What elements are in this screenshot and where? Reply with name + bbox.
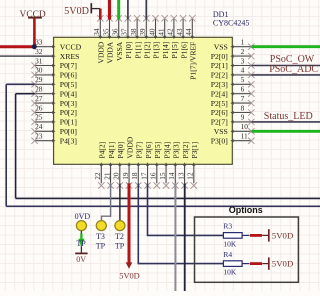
svg-text:14: 14 (167, 172, 176, 180)
svg-text:43: 43 (175, 28, 184, 36)
pin 3 P2[1] (right) (211, 56, 255, 70)
svg-text:9: 9 (241, 113, 245, 122)
svg-text:18: 18 (130, 172, 139, 180)
pin 21 P4[1] (bottom) (102, 142, 115, 189)
svg-text:VDDD: VDDD (125, 136, 134, 158)
svg-text:P0[0]: P0[0] (60, 127, 77, 136)
svg-text:VDDA: VDDA (106, 41, 115, 63)
pin 5 P2[3] (right) (211, 75, 255, 89)
wire VSS pin 10 (green to right edge) (251, 130, 320, 133)
svg-text:R4: R4 (223, 250, 232, 259)
resistor R3 body (223, 233, 242, 239)
wire net H2 horizontal to right edge (6, 205, 320, 207)
wire P0[5] vertical (5, 84, 7, 206)
svg-text:12: 12 (186, 172, 195, 180)
wire P1[2] pin 39 (from top edge) (145, 0, 147, 20)
test point T2 pad (115, 221, 125, 231)
svg-text:1: 1 (241, 38, 245, 47)
svg-text:VSS: VSS (214, 42, 228, 51)
svg-text:XRES: XRES (60, 52, 80, 61)
wire Status_LED pin 9 (251, 121, 320, 123)
svg-text:13: 13 (176, 172, 185, 180)
wire XRES (gray, to left edge) (0, 55, 54, 57)
IC DD1 CY8C4245 body (54, 37, 233, 164)
TP1 green marker arrow (80, 233, 82, 239)
svg-text:36: 36 (111, 28, 120, 36)
svg-text:P1[3]: P1[3] (152, 42, 161, 59)
pin 15 P3[4] (bottom) (158, 142, 171, 189)
pin 14 P3[3] (bottom) (167, 142, 180, 189)
svg-text:34: 34 (92, 28, 101, 36)
svg-text:P0[4]: P0[4] (60, 89, 77, 98)
power port 5V0D (R4) stub (262, 263, 269, 265)
pin 10 VSS (right) (214, 122, 255, 136)
test point TP1 pad (0VD) (76, 221, 86, 231)
pin 4 P2[2] (right) (211, 66, 255, 80)
svg-text:P2[2]: P2[2] (211, 71, 228, 80)
pin 20 P4[0] (bottom) (112, 142, 125, 189)
svg-text:P2[6]: P2[6] (211, 108, 228, 117)
svg-text:Options: Options (229, 205, 263, 215)
resistor R4 body (223, 261, 242, 267)
pin 40 P1[3] (top) (147, 15, 160, 58)
wire pin 18 P3[7] to R4 (138, 183, 223, 263)
pin 38 P1[1] (top) (129, 15, 142, 58)
pin 8 P2[6] (right) (211, 103, 255, 117)
svg-text:P3[7]: P3[7] (135, 142, 144, 159)
svg-text:11: 11 (241, 132, 248, 141)
svg-text:P4[2]: P4[2] (98, 142, 107, 159)
pin 33 VCCD (left) (35, 38, 82, 52)
resistor R3 lead right (242, 234, 249, 236)
svg-text:5V0D: 5V0D (119, 272, 139, 281)
wire pin 17 P3[6] to R3 (148, 183, 224, 235)
svg-text:20: 20 (112, 172, 121, 180)
pin 26 P0[2] (left) (31, 103, 76, 117)
svg-text:19: 19 (121, 172, 130, 180)
svg-text:T3: T3 (96, 232, 105, 241)
wire R3 to 5V0D (red) (250, 234, 262, 237)
wire net H1 horizontal to right edge (16, 197, 320, 199)
pin 12 P3[1] (bottom) (186, 142, 199, 189)
svg-text:P3[0]: P3[0] (211, 136, 228, 145)
svg-text:P1[5]: P1[5] (170, 42, 179, 59)
test point T3 pad (96, 221, 106, 231)
wire TP1 to 0V ground (80, 231, 82, 253)
svg-text:P4[0]: P4[0] (116, 142, 125, 159)
pin 37 P1[0] (top) (120, 15, 133, 58)
svg-text:16: 16 (149, 172, 158, 180)
svg-text:Status_LED: Status_LED (264, 111, 313, 122)
power port VCCD bar (28, 17, 42, 19)
wire pin 14 P3[3] down to sheet edge (gray) (174, 183, 176, 291)
svg-text:4: 4 (241, 66, 245, 75)
pin 6 P2[4] (right) (211, 85, 255, 99)
wire 5V0D pin 19 VDDD (thick red down) (128, 183, 131, 263)
svg-text:P3[1]: P3[1] (190, 142, 199, 159)
svg-text:6: 6 (241, 85, 245, 94)
svg-text:VDDD: VDDD (97, 41, 106, 63)
svg-text:VSS: VSS (214, 127, 228, 136)
svg-text:P0[1]: P0[1] (60, 118, 77, 127)
pin 31 P0[7] (left) (31, 56, 76, 70)
pin 34 VDDD (top) (92, 15, 105, 63)
svg-text:P0[7]: P0[7] (60, 61, 77, 70)
wire VSS pin 1 (green to right edge) (251, 45, 320, 48)
pin 39 P1[2] (top) (138, 15, 151, 58)
svg-text:TP: TP (115, 241, 125, 250)
svg-text:P1[1]: P1[1] (133, 42, 142, 59)
svg-text:33: 33 (35, 38, 43, 47)
pin 41 P1[4] (top) (157, 15, 170, 58)
svg-text:TP: TP (96, 241, 106, 250)
wire VCCD stem (red) (33, 18, 36, 47)
pin 11 P3[0] (right) (211, 132, 255, 146)
pin 2 P2[0] (right) (211, 47, 255, 61)
svg-text:CY8C4245: CY8C4245 (213, 18, 249, 27)
svg-text:P0[6]: P0[6] (60, 71, 77, 80)
svg-text:P2[1]: P2[1] (211, 61, 228, 70)
svg-text:P3[5]: P3[5] (153, 142, 162, 159)
wire VDDA pin 35 (thick red from top edge) (108, 0, 111, 20)
svg-text:P4[1]: P4[1] (107, 142, 116, 159)
pin 24 P0[0] (left) (31, 122, 76, 136)
resistor R4 lead right (242, 263, 249, 265)
svg-text:P2[0]: P2[0] (211, 52, 228, 61)
svg-text:P3[4]: P3[4] (162, 142, 171, 159)
pin 13 P3[2] (bottom) (176, 142, 189, 189)
pin 43 P1[6] (top) (175, 15, 188, 58)
svg-text:P2[3]: P2[3] (211, 80, 228, 89)
svg-text:5V0D: 5V0D (272, 259, 294, 269)
wire pin 20 P4[0] to TP T2 (119, 183, 121, 220)
wire P0[5] horizontal (6, 83, 35, 85)
power port 0V bar (75, 252, 87, 254)
svg-text:44: 44 (184, 28, 193, 36)
svg-text:32: 32 (35, 47, 43, 56)
svg-text:35: 35 (101, 28, 110, 36)
svg-text:P1[0]: P1[0] (124, 42, 133, 59)
svg-text:3: 3 (241, 56, 245, 65)
svg-text:40: 40 (147, 28, 156, 36)
svg-text:P3[2]: P3[2] (181, 142, 190, 159)
svg-text:39: 39 (138, 28, 147, 36)
pin 1 VSS (right) (214, 38, 255, 52)
wire VSSA pin 36 (green from top edge) (117, 0, 120, 20)
svg-text:10: 10 (241, 122, 249, 131)
svg-text:P2[5]: P2[5] (211, 99, 228, 108)
svg-text:41: 41 (157, 28, 166, 36)
svg-text:P2[4]: P2[4] (211, 89, 228, 98)
pin 42 P1[5] (top) (166, 15, 179, 58)
pin 30 P0[6] (left) (31, 66, 76, 80)
svg-text:15: 15 (158, 172, 167, 180)
power port 5V0D (top) stub (91, 8, 100, 10)
svg-text:P3[6]: P3[6] (144, 142, 153, 159)
svg-text:17: 17 (139, 172, 148, 180)
svg-text:21: 21 (102, 172, 111, 180)
wire P1[0] pin 37 (from top edge) (127, 0, 129, 20)
wire P0[4] horizontal (16, 93, 35, 95)
Options group box (195, 217, 299, 282)
svg-text:P1[6]: P1[6] (179, 42, 188, 59)
wire R4 to 5V0D (red) (250, 262, 262, 265)
pin 36 VSSA (top) (111, 15, 124, 61)
pin 18 P3[7] (bottom) (130, 142, 143, 189)
power port 5V0D (R3) stub (262, 234, 269, 236)
pin 28 P0[4] (left) (31, 85, 76, 99)
svg-text:T2: T2 (115, 232, 124, 241)
svg-text:5V0D: 5V0D (272, 231, 294, 241)
svg-text:5: 5 (241, 75, 245, 84)
wire 5V0D to pin 34 VDDD (red) (99, 9, 102, 20)
wire P0[4] vertical (15, 94, 17, 199)
pin 35 VDDA (top) (101, 15, 114, 63)
svg-text:10K: 10K (223, 239, 237, 248)
svg-text:0V: 0V (76, 255, 86, 264)
power port 5V0D (R3) bar (268, 229, 270, 241)
svg-text:5V0D: 5V0D (64, 6, 89, 17)
svg-text:VSSA: VSSA (115, 41, 124, 61)
svg-text:22: 22 (93, 172, 102, 180)
svg-text:P0[5]: P0[5] (60, 80, 77, 89)
pin 22 P4[2] (bottom) (93, 142, 106, 189)
wire VCCD horizontal (red, to left edge) (0, 45, 34, 48)
svg-text:8: 8 (241, 103, 245, 112)
svg-text:P1[4]: P1[4] (161, 42, 170, 59)
svg-text:37: 37 (120, 28, 129, 36)
power port 5V0D (R4) bar (268, 257, 270, 269)
svg-text:P3[3]: P3[3] (172, 142, 181, 159)
svg-text:VCCD: VCCD (60, 42, 82, 51)
svg-text:PSoC_ADC: PSoC_ADC (269, 64, 318, 75)
power port 5V0D (top) bar (90, 3, 92, 13)
pin 23 P4[3] (left) (31, 132, 76, 146)
wire PSoC_ADC pin 4 (251, 74, 320, 76)
svg-text:TP: TP (76, 239, 86, 248)
svg-text:P4[3]: P4[3] (60, 136, 77, 145)
junction at pin 33 (32, 44, 37, 49)
pin 7 P2[5] (right) (211, 94, 255, 108)
pin 9 P2[7] (right) (211, 113, 255, 127)
svg-text:7: 7 (241, 94, 245, 103)
pin 25 P0[1] (left) (31, 113, 76, 127)
pin 32 XRES (left) (35, 47, 80, 61)
svg-text:38: 38 (129, 28, 138, 36)
pin 27 P0[3] (left) (31, 94, 76, 108)
pin 29 P0[5] (left) (31, 75, 76, 89)
power port 5V0D (bottom) arrow (126, 262, 133, 268)
svg-text:P1[2]: P1[2] (143, 42, 152, 59)
pin 44 P1[7]/VREF (top) (184, 15, 197, 80)
pin 17 P3[6] (bottom) (139, 142, 152, 189)
svg-text:P0[3]: P0[3] (60, 99, 77, 108)
svg-text:2: 2 (241, 47, 245, 56)
wire pin 21 P4[1] to TP T3 (102, 183, 111, 220)
wire pin 13 P3[2] down to sheet edge (184, 183, 186, 291)
wire PSoC_OW pin 3 (251, 65, 320, 67)
svg-text:P0[2]: P0[2] (60, 108, 77, 117)
pin 19 VDDD (bottom) (121, 136, 134, 188)
svg-text:42: 42 (166, 28, 175, 36)
svg-text:R3: R3 (223, 222, 232, 231)
pin 16 P3[5] (bottom) (149, 142, 162, 189)
svg-text:0VD: 0VD (75, 212, 91, 221)
svg-text:10K: 10K (223, 268, 237, 277)
svg-text:P1[7]/VREF: P1[7]/VREF (189, 42, 198, 80)
svg-text:P2[7]: P2[7] (211, 118, 228, 127)
